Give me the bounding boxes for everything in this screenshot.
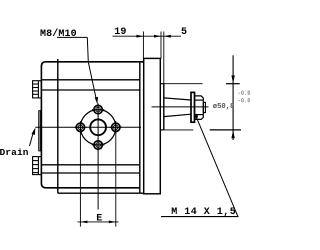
dim 19/5 extension line mid: [160, 32, 162, 59]
drain leader: [30, 131, 34, 147]
M8/M10 arrowhead: [95, 97, 98, 105]
shaft nut M14: [195, 96, 204, 120]
o50.8 extension line bottom: [164, 129, 241, 131]
M8/M10 leader underline: [57, 36, 87, 38]
upper port band line 1: [41, 79, 139, 81]
svg-text:5: 5: [181, 27, 187, 38]
o50.8 arrow bottom: [231, 130, 234, 138]
upper port band line 2: [41, 89, 139, 91]
front vertical centerline: [97, 104, 99, 210]
arrow at 19 left: [136, 35, 143, 38]
bolt hole top M8/M10: [92, 103, 104, 115]
shaft centerline: [152, 106, 209, 108]
svg-text:-0.09: -0.09: [238, 98, 250, 105]
dim E dimension line: [78, 221, 119, 223]
lower left port boss: [33, 157, 42, 175]
o50.8 arrow top: [231, 75, 234, 83]
svg-text:-0.05: -0.05: [238, 90, 250, 97]
drain arrowhead: [32, 128, 36, 136]
mounting flange plate: [144, 58, 161, 193]
drain boss strip: [39, 111, 42, 151]
dim E extension line right: [115, 132, 117, 227]
svg-text:E: E: [96, 213, 102, 224]
shaft washer: [191, 92, 195, 122]
M14 leader dot: [194, 114, 198, 118]
dim 5 extension line right: [163, 32, 165, 84]
svg-text:Drain: Drain: [0, 147, 29, 158]
upper left port boss: [33, 81, 42, 98]
lower port band line 1: [41, 164, 139, 166]
dim E arrow right: [109, 221, 116, 224]
top dimension line: [113, 35, 182, 37]
arrow at 19 right: [154, 35, 161, 38]
body bottom lower edge: [58, 192, 144, 194]
pilot spigot o50.8: [160, 84, 164, 130]
dim 19 extension line left: [142, 32, 144, 59]
svg-text:M8/M10: M8/M10: [40, 28, 77, 40]
bolt hole right: [110, 121, 122, 133]
M8/M10 leader diagonal: [87, 37, 96, 100]
bolt hole bottom: [92, 139, 104, 151]
arrow at 5 right: [164, 35, 171, 38]
body rear split line (vertical): [139, 62, 141, 193]
shaft bore circle: [90, 119, 106, 135]
dim E extension line left: [79, 132, 81, 227]
svg-text:ø50,8: ø50,8: [213, 103, 235, 111]
tapered shaft: [164, 98, 191, 117]
shaft thread tip: [203, 102, 205, 112]
bolt hole left: [74, 121, 86, 133]
svg-text:19: 19: [114, 27, 126, 38]
M14 leader diagonal: [196, 117, 238, 217]
dim E arrow left: [80, 221, 87, 224]
body front-cover split line (vertical): [57, 59, 59, 193]
o50.8 extension line top: [164, 83, 240, 85]
pump body outline: [41, 62, 143, 188]
M14 leader underline: [161, 216, 239, 218]
lower port band line 2: [41, 172, 139, 174]
front horizontal centerline: [35, 126, 141, 128]
o50.8 dimension vertical line: [232, 55, 234, 140]
bolt circle: [80, 110, 115, 145]
